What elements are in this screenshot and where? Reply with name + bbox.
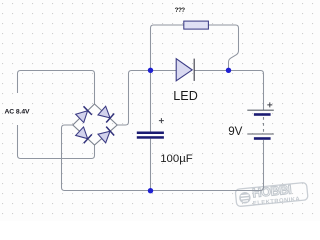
wire DC minus: bridge left vertex down and along bottom to battery minus xyxy=(62,125,264,191)
LED diode symbol xyxy=(176,59,194,81)
diode D1 (left-top edge, anode left vertex) xyxy=(76,106,92,122)
junction node LED cathode / resistor xyxy=(226,68,231,73)
battery plus mark xyxy=(267,102,272,107)
junction node LED anode / resistor / capacitor xyxy=(148,68,153,73)
wire AC upper: source top terminal to bridge top vertex xyxy=(18,71,95,105)
svg-text:100µF: 100µF xyxy=(160,153,193,165)
wire battery inter-cell dashed link xyxy=(263,117,265,133)
battery BT1 9V cell 2 xyxy=(247,134,273,140)
resistor R1 body xyxy=(184,21,209,29)
wire capacitor top branch xyxy=(150,71,152,132)
junction node capacitor bottom / ground rail xyxy=(148,188,153,193)
capacitor plus mark xyxy=(159,118,164,123)
svg-text:9V: 9V xyxy=(228,125,242,138)
wire AC lower: source bottom terminal to bridge bottom vertex xyxy=(18,125,95,159)
capacitor C1 plates xyxy=(137,132,164,139)
diode D4 (bottom-right edge, cathode right vertex) xyxy=(98,127,114,143)
svg-text:AC 8.4V: AC 8.4V xyxy=(5,109,31,116)
wire resistor branch left riser xyxy=(151,25,184,71)
diode D3 (left-bottom edge, anode left vertex) xyxy=(76,127,92,143)
wire resistor branch right with jog down to LED cathode node xyxy=(208,25,238,71)
svg-text:???: ??? xyxy=(175,7,186,14)
bridge rectifier diamond frame xyxy=(73,104,117,145)
watermark logo HOBBI ELEKTRONIKA xyxy=(235,181,308,209)
wire capacitor bottom branch xyxy=(150,139,152,191)
battery BT1 9V cell 1 xyxy=(247,110,273,116)
wire DC plus: bridge right vertex up to LED anode line xyxy=(117,71,176,126)
diode D2 (top-right edge, cathode right vertex) xyxy=(98,106,114,122)
wire LED cathode to battery plus xyxy=(194,71,263,111)
svg-text:LED: LED xyxy=(173,89,198,103)
